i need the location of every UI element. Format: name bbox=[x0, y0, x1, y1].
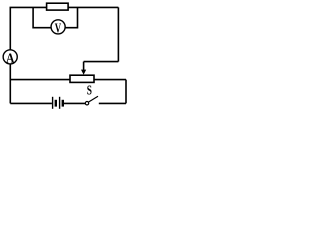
voltmeter loop right wire bbox=[65, 7, 78, 27]
wire top-right from resistor to right corner bbox=[68, 6, 118, 8]
wire right vertical down to wiper lead bbox=[117, 7, 119, 61]
wire right mid from rheostat to right corner bbox=[94, 79, 126, 81]
svg-text:V: V bbox=[55, 22, 61, 37]
wire right vertical down to bottom bbox=[125, 80, 127, 104]
switch lever bbox=[89, 96, 98, 102]
svg-text:A: A bbox=[6, 51, 15, 66]
wire top-left from ammeter up and across to resistor bbox=[10, 7, 46, 50]
wire bottom-left to battery bbox=[10, 102, 52, 104]
wire left vertical below ammeter bbox=[9, 64, 11, 103]
wire switch to bottom-right corner bbox=[99, 102, 126, 104]
wire left mid from junction to rheostat bbox=[10, 79, 70, 81]
voltmeter loop left wire bbox=[33, 7, 51, 27]
battery cell1 short plate bbox=[55, 100, 57, 107]
wire wiper horizontal lead bbox=[84, 61, 119, 63]
rheostat wiper arrowhead bbox=[81, 70, 86, 75]
switch pivot circle bbox=[85, 102, 88, 105]
resistor R bbox=[47, 3, 69, 10]
battery cell2 long plate bbox=[59, 97, 61, 109]
rheostat body bbox=[70, 75, 94, 82]
svg-text:S: S bbox=[87, 84, 92, 99]
ammeter A circle bbox=[3, 50, 17, 64]
voltmeter U1 circle bbox=[51, 20, 65, 34]
wire wiper vertical stem bbox=[83, 62, 85, 71]
battery cell2 short plate bbox=[62, 100, 64, 107]
battery cell1 long plate bbox=[52, 97, 54, 109]
wire battery to switch bbox=[64, 102, 85, 104]
